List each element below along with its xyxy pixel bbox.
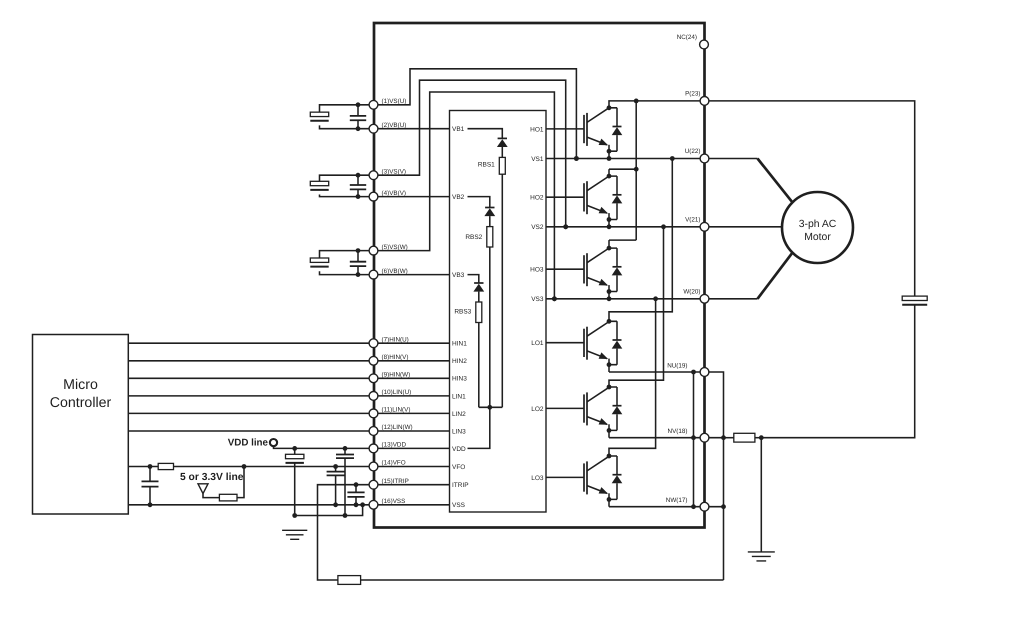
capacitor C2 (ceramic bootstrap, phase U) — [357, 105, 359, 116]
wire VS(W) pin to VS3 node bus — [374, 92, 555, 299]
wire VS1 / U output node — [546, 158, 705, 160]
capacitor C12 (ITRIP filter) — [355, 485, 357, 493]
transistor Q4 (low-side U IGBT) — [546, 342, 584, 344]
svg-text:HO1: HO1 — [530, 126, 544, 133]
wire bootstrap cap top rail phase U — [320, 105, 374, 112]
pin (right, y=226.8) — [700, 222, 709, 231]
wire P rail feed to Q2 collector — [635, 101, 637, 169]
pin (left, y=395.9) — [369, 392, 378, 401]
wire bootstrap cap top rail phase W — [320, 251, 374, 258]
svg-text:(9)HIN(W): (9)HIN(W) — [382, 372, 411, 379]
svg-text:U(22): U(22) — [685, 148, 701, 155]
wire U node to Q4 collector — [609, 159, 672, 322]
wire VS(U) pin to VS1 node bus — [374, 69, 577, 159]
svg-text:LIN3: LIN3 — [452, 428, 466, 435]
module outline (IPM) — [374, 23, 705, 528]
diode DBS1 (bootstrap) — [498, 137, 507, 139]
svg-text:RBS2: RBS2 — [465, 234, 482, 241]
wire driver VB1 to bootstrap diode — [468, 129, 503, 139]
svg-text:(4)VB(V): (4)VB(V) — [382, 190, 407, 197]
motor M1 (3-ph AC Motor) — [782, 192, 853, 263]
pin (left, y=504.8) — [369, 500, 378, 509]
svg-text:P(23): P(23) — [685, 90, 700, 97]
svg-text:(12)LIN(W): (12)LIN(W) — [382, 424, 413, 431]
wire bootstrap cap bottom rail phase W — [320, 271, 374, 274]
svg-text:LO3: LO3 — [531, 475, 544, 482]
resistor RBS2 — [487, 227, 493, 247]
ground (signal) — [282, 530, 307, 539]
svg-text:(7)HIN(U): (7)HIN(U) — [382, 336, 409, 343]
capacitor C1 (electrolytic bootstrap, phase U) — [310, 112, 328, 116]
wire HIN(U) pin to driver — [374, 342, 450, 344]
svg-text:LO2: LO2 — [531, 406, 544, 413]
svg-text:(6)VB(W): (6)VB(W) — [382, 268, 408, 275]
diode DBS3 (bootstrap) — [474, 282, 483, 284]
wire bootstrap cap bottom rail phase U — [320, 125, 374, 128]
transistor Q6 (low-side W IGBT) — [546, 476, 584, 478]
svg-text:NW(17): NW(17) — [666, 497, 688, 504]
capacitor C6 (ceramic bootstrap, phase W) — [357, 251, 359, 262]
pin (left, y=466.5) — [369, 462, 378, 471]
wire V node to Q5 collector — [609, 227, 664, 387]
svg-text:VSS: VSS — [452, 502, 466, 509]
svg-text:NC(24): NC(24) — [677, 34, 697, 41]
wire VSS to microcontroller — [128, 504, 373, 506]
svg-text:(11)LIN(V): (11)LIN(V) — [382, 407, 411, 414]
wire diode to RBS2 — [489, 216, 491, 227]
wire LIN(W) from microcontroller — [128, 430, 373, 432]
capacitor C7 (DC bus electrolytic) — [902, 296, 927, 300]
transistor Q1 (high-side U IGBT) — [546, 128, 584, 130]
wire LIN(U) pin to driver — [374, 395, 450, 397]
svg-text:NV(18): NV(18) — [668, 428, 688, 435]
wire HIN(V) pin to driver — [374, 360, 450, 362]
wire bootstrap cap top rail phase V — [320, 175, 374, 181]
pin (left, y=175.2) — [369, 171, 378, 180]
svg-text:ITRIP: ITRIP — [452, 482, 469, 489]
svg-text:V(21): V(21) — [685, 216, 700, 223]
wire Q5 emitter to N pin — [609, 437, 705, 439]
svg-text:VB3: VB3 — [452, 272, 465, 279]
wire P rail feed to Q3 collector — [635, 169, 637, 240]
resistor RBS3 — [476, 302, 482, 323]
svg-text:LO1: LO1 — [531, 340, 544, 347]
svg-text:NU(19): NU(19) — [667, 362, 687, 369]
pin (left, y=196.6) — [369, 192, 378, 201]
wire RBS3 down to VDD node — [478, 323, 480, 408]
svg-text:HIN2: HIN2 — [452, 358, 467, 365]
svg-text:VB1: VB1 — [452, 126, 465, 133]
svg-text:Motor: Motor — [804, 232, 831, 243]
wire W node to Q6 collector — [609, 299, 656, 456]
svg-text:RBS3: RBS3 — [454, 309, 471, 316]
svg-text:VS3: VS3 — [531, 296, 544, 303]
ground (power) — [748, 552, 775, 561]
wire VB(U) pin to driver VB1 — [374, 128, 450, 130]
wire RBS2 down to VDD node — [489, 247, 491, 407]
pin (left, y=104.8) — [369, 100, 378, 109]
wire VS(V) pin to VS2 node bus — [374, 80, 566, 227]
svg-text:Controller: Controller — [50, 395, 112, 411]
pin (left, y=360.8) — [369, 356, 378, 365]
wire HIN(V) from microcontroller — [128, 360, 373, 362]
svg-text:Micro: Micro — [63, 377, 98, 393]
pin (right, y=158.5) — [700, 154, 709, 163]
wire HIN(U) from microcontroller — [128, 342, 373, 344]
wire LIN(W) pin to driver — [374, 430, 450, 432]
svg-text:(5)VS(W): (5)VS(W) — [382, 244, 408, 251]
pin (left, y=484.7) — [369, 480, 378, 489]
wire V phase to motor — [705, 226, 783, 228]
capacitor C3 (electrolytic bootstrap, phase V) — [310, 181, 328, 185]
wire shunt to power ground — [760, 438, 762, 552]
gate driver IC U1 outline — [450, 111, 547, 513]
pin (right, y=298.8) — [700, 294, 709, 303]
wire LIN(V) pin to driver — [374, 412, 450, 414]
svg-text:HIN3: HIN3 — [452, 376, 467, 383]
pin (left, y=274.6) — [369, 270, 378, 279]
svg-text:LIN1: LIN1 — [452, 393, 466, 400]
svg-text:(15)ITRIP: (15)ITRIP — [382, 478, 409, 485]
wire W phase to motor — [705, 298, 758, 300]
wire LIN(V) from microcontroller — [128, 412, 373, 414]
transistor Q5 (low-side V IGBT) — [546, 407, 584, 409]
svg-text:5 or 3.3V line: 5 or 3.3V line — [180, 472, 244, 483]
wire Q6 emitter to N pin — [609, 506, 705, 508]
pin (right, y=372) — [700, 368, 709, 377]
pin (right, y=100.9) — [700, 97, 709, 106]
pin (right, y=506.7) — [700, 502, 709, 511]
wire ITRIP pin to driver — [374, 484, 450, 486]
svg-text:VS2: VS2 — [531, 224, 544, 231]
wire U phase to motor — [705, 158, 758, 160]
resistor RSH (shunt) — [724, 437, 734, 439]
pin (left, y=378.3) — [369, 374, 378, 383]
svg-text:VB2: VB2 — [452, 194, 465, 201]
svg-text:VFO: VFO — [452, 464, 465, 471]
wire driver VB2 to bootstrap diode — [468, 197, 490, 208]
wire VSS pin to driver — [374, 504, 450, 506]
wire internal emitter bus — [693, 372, 695, 507]
svg-text:VDD: VDD — [452, 446, 466, 453]
wire VDD pin to driver — [374, 447, 450, 449]
wire diode to RBS1 — [501, 147, 503, 157]
svg-text:(2)VB(U): (2)VB(U) — [382, 122, 407, 129]
svg-text:(1)VS(U): (1)VS(U) — [382, 98, 407, 105]
svg-text:(16)VSS: (16)VSS — [382, 498, 406, 505]
resistor RBS1 — [499, 157, 505, 174]
capacitor C4 (ceramic bootstrap, phase V) — [357, 175, 359, 185]
pin (left, y=431) — [369, 427, 378, 436]
wire bootstrap cap bottom rail phase V — [320, 195, 374, 197]
svg-text:VS1: VS1 — [531, 156, 544, 163]
svg-text:VDD line: VDD line — [228, 437, 269, 448]
svg-text:(8)HIN(V): (8)HIN(V) — [382, 354, 409, 361]
wire signal ground tie — [295, 505, 363, 516]
diode DBS2 (bootstrap) — [485, 207, 494, 209]
capacitor C8 (VDD electrolytic) — [294, 448, 296, 454]
wire VS3 / W output node — [546, 298, 705, 300]
wire Q1 collector to P rail — [609, 101, 705, 108]
pin (right, y=437.7) — [700, 433, 709, 442]
capacitor C10 (VFO filter) — [149, 467, 151, 482]
svg-text:HO2: HO2 — [530, 195, 544, 202]
capacitor C5 (electrolytic bootstrap, phase W) — [310, 258, 328, 262]
svg-text:3-ph AC: 3-ph AC — [799, 219, 837, 230]
capacitor C11 (VFO ceramic) — [335, 467, 337, 472]
svg-text:RBS1: RBS1 — [478, 162, 495, 169]
wire VFO pin to driver — [374, 466, 450, 468]
wire VB(W) pin to driver VB3 — [374, 274, 450, 276]
svg-text:HIN1: HIN1 — [452, 341, 467, 348]
transistor Q2 (high-side V IGBT) — [546, 196, 584, 198]
svg-text:W(20): W(20) — [683, 288, 700, 295]
svg-text:HO3: HO3 — [530, 267, 544, 274]
wire bootstrap common join to VDD — [479, 406, 503, 408]
svg-text:(13)VDD: (13)VDD — [382, 442, 407, 449]
resistor R3 (ITRIP series) — [361, 579, 724, 581]
svg-text:(14)VFO: (14)VFO — [382, 460, 406, 467]
transistor Q3 (high-side W IGBT) — [546, 268, 584, 270]
svg-text:(3)VS(V): (3)VS(V) — [382, 168, 407, 175]
pin NC(24) — [700, 40, 709, 49]
pin (left, y=128.7) — [369, 124, 378, 133]
wire RBS1 down to VDD node — [501, 174, 503, 407]
wire HIN(W) from microcontroller — [128, 377, 373, 379]
wire driver VB3 to bootstrap diode — [468, 275, 479, 283]
svg-text:LIN2: LIN2 — [452, 411, 466, 418]
pin (left, y=343.2) — [369, 339, 378, 348]
wire LIN(U) from microcontroller — [128, 395, 373, 397]
wire VS2 / V output node — [546, 226, 705, 228]
pin (left, y=448.4) — [369, 444, 378, 453]
wire VB(V) pin to driver VB2 — [374, 196, 450, 198]
pin (left, y=250.6) — [369, 246, 378, 255]
pin (left, y=413.4) — [369, 409, 378, 418]
wire diode to RBS3 — [478, 292, 480, 302]
resistor R1 (VFO series) — [128, 466, 158, 468]
wire Q4 emitter to N pin — [609, 371, 705, 373]
resistor R2 (VFO pull-up) — [219, 494, 237, 501]
capacitor C9 (VDD ceramic) — [344, 448, 346, 454]
wire DC bus cap to shunt node — [761, 305, 914, 438]
microcontroller block — [33, 335, 129, 515]
svg-text:(10)LIN(U): (10)LIN(U) — [382, 389, 412, 396]
wire P rail to DC bus cap — [705, 101, 915, 296]
wire HIN(W) pin to driver — [374, 377, 450, 379]
wire N pins external bus — [705, 372, 724, 580]
